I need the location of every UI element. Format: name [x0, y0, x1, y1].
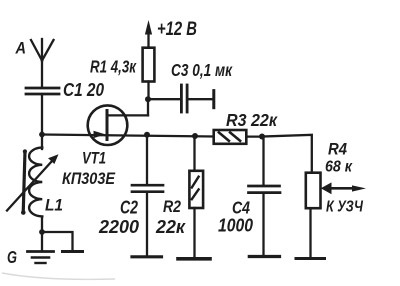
node A (C1/L1/gate junction)	[39, 132, 45, 138]
wire L1 bottom to ground node	[41, 217, 43, 232]
svg-text:VT1: VT1	[82, 149, 106, 168]
wiper / output arrow К УЗЧ	[321, 182, 366, 194]
node E (R2 top junction)	[192, 133, 198, 139]
+12V supply arrow	[145, 20, 152, 35]
svg-text:22к: 22к	[155, 216, 187, 237]
capacitor C3	[148, 85, 214, 112]
antenna A	[31, 39, 54, 61]
capacitor C4	[249, 137, 281, 257]
transistor VT1	[88, 105, 148, 145]
svg-text:К УЗЧ: К УЗЧ	[326, 199, 364, 216]
wire drain vertical to R1 node	[147, 99, 149, 115]
svg-text:R3 22к: R3 22к	[226, 110, 278, 130]
resistor R4 (potentiometer)	[296, 173, 325, 259]
wire antenna to C1	[41, 61, 43, 87]
svg-text:R1 4,3к: R1 4,3к	[90, 57, 137, 77]
svg-text:+12 В: +12 В	[157, 18, 197, 40]
svg-text:C1 20: C1 20	[63, 80, 104, 100]
node C (R1/C3/drain junction)	[145, 96, 151, 102]
resistor R3	[214, 130, 262, 144]
svg-text:1000: 1000	[218, 215, 254, 236]
chassis terminal bar	[63, 250, 83, 253]
svg-text:68 к: 68 к	[325, 159, 353, 176]
capacitor C2	[132, 135, 163, 257]
L1 variable arrow	[7, 154, 59, 210]
svg-text:L1: L1	[45, 196, 63, 215]
svg-text:A: A	[15, 39, 26, 58]
L1 core line	[21, 149, 27, 214]
svg-text:C3 0,1 мк: C3 0,1 мк	[171, 60, 233, 80]
svg-text:КП303Е: КП303Е	[62, 169, 116, 188]
wire node to L1 top	[41, 135, 43, 150]
svg-text:2200: 2200	[98, 216, 140, 237]
resistor R2	[178, 136, 210, 259]
inductor L1	[29, 148, 42, 217]
svg-text:C2: C2	[120, 198, 138, 218]
capacitor C1	[26, 88, 59, 94]
node F (C4/R4 junction)	[259, 134, 265, 140]
wire C1 to bus node	[41, 95, 43, 135]
svg-text:R4: R4	[328, 141, 347, 159]
wire ground node to chassis stub	[42, 232, 73, 250]
svg-text:R2: R2	[163, 197, 181, 216]
node D (C2 top junction)	[144, 132, 150, 138]
wire main bus (gate/source line)	[42, 135, 214, 137]
node B (L1/ground junction)	[39, 229, 45, 235]
ground G	[28, 232, 54, 263]
resistor R1	[143, 34, 155, 99]
svg-text:G: G	[7, 247, 17, 267]
wire node F to R4	[262, 135, 312, 173]
